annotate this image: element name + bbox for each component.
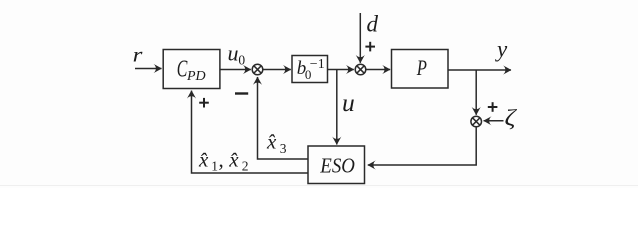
svg-text:x̂: x̂ <box>198 148 209 172</box>
label plus at C_PD feedback <box>199 98 209 108</box>
svg-text:−1: −1 <box>310 57 325 72</box>
summing junction J2 <box>355 64 366 75</box>
svg-text:0: 0 <box>238 53 245 68</box>
wire b0 block to J2 <box>328 69 354 71</box>
svg-text:3: 3 <box>280 141 287 156</box>
svg-text:x̂: x̂ <box>228 148 239 172</box>
svg-text:ESO: ESO <box>319 154 354 178</box>
wire d input <box>359 13 361 63</box>
block P <box>392 50 449 89</box>
svg-text:u: u <box>228 40 239 65</box>
wire J1 to b0 block <box>263 69 291 71</box>
summing junction J3 <box>471 116 482 127</box>
wire zeta input <box>484 120 504 122</box>
label plus at J3 <box>488 102 498 112</box>
summing junction J1 <box>252 64 263 75</box>
svg-text:u: u <box>342 88 355 117</box>
svg-text:2: 2 <box>242 158 249 173</box>
wire r input <box>135 68 162 70</box>
label minus at J1 <box>235 92 248 94</box>
block b0^-1 <box>292 56 328 83</box>
svg-text:x̂: x̂ <box>266 129 277 153</box>
svg-text:PD: PD <box>186 69 206 84</box>
wire J3 down and left into ESO <box>368 127 476 165</box>
svg-text:ζ: ζ <box>505 106 518 131</box>
faint page rule at bottom <box>0 185 638 187</box>
svg-text:r: r <box>133 43 144 67</box>
block C_PD <box>163 50 220 89</box>
svg-text:,: , <box>219 148 224 172</box>
wire x3hat feedback ESO to J1 <box>258 77 309 159</box>
block ESO <box>308 146 365 184</box>
label plus at J2 <box>365 42 375 52</box>
wire J2 to P <box>366 69 390 71</box>
svg-text:y: y <box>495 37 508 62</box>
wire C_PD to J1 <box>220 69 251 71</box>
svg-text:d: d <box>367 11 379 36</box>
svg-text:P: P <box>416 55 427 80</box>
svg-text:1: 1 <box>211 158 218 173</box>
wire branch y down to J3 <box>475 70 477 115</box>
wire u branch down into ESO <box>336 70 338 145</box>
wire P output y <box>448 69 511 71</box>
wire x1hat x2hat feedback ESO to C_PD <box>192 91 309 173</box>
